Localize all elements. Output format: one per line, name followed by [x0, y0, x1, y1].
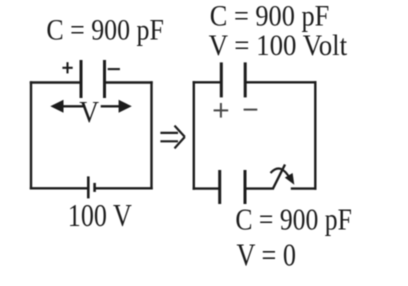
wire top-left segment (left circuit) — [30, 81, 81, 83]
wire left side (left circuit) — [30, 81, 32, 189]
minus sign at C2 — [244, 109, 258, 111]
wire bottom-left segment (right circuit) — [193, 187, 220, 189]
svg-text:V = 100 Volt: V = 100 Volt — [209, 29, 348, 62]
capacitor C2 left plate — [220, 62, 223, 97]
voltage arrow left (points left) — [50, 100, 84, 113]
battery 100 V long plate — [87, 176, 90, 198]
capacitor C2 right plate — [244, 62, 247, 97]
wire top-left segment (right circuit) — [193, 81, 222, 83]
wire top-right segment (right circuit) — [245, 81, 316, 83]
plus sign at C2 — [214, 103, 229, 118]
capacitor C1 left plate — [80, 60, 83, 98]
svg-text:C = 900 pF: C = 900 pF — [46, 13, 163, 46]
switch blade (open) — [273, 165, 286, 190]
svg-text:C = 900 pF: C = 900 pF — [210, 0, 329, 33]
implication arrow (double arrow between circuits) — [160, 126, 184, 149]
capacitor C3 left plate — [218, 170, 221, 204]
wire bottom-right segment (switch contact to corner) — [291, 187, 317, 189]
wire bottom-right segment (left circuit) — [95, 187, 153, 189]
wire bottom-left segment (left circuit) — [30, 187, 89, 189]
capacitor C1 right plate — [103, 60, 106, 98]
capacitor C3 right plate — [244, 170, 247, 204]
svg-text:V: V — [79, 94, 99, 129]
switch closing arrow (curved with arrowhead) — [271, 169, 295, 185]
voltage arrow right (points right) — [101, 100, 132, 113]
svg-text:C = 900 pF: C = 900 pF — [235, 201, 352, 236]
wire bottom-middle segment (to switch) — [245, 187, 273, 189]
plus sign at C1 — [62, 62, 72, 73]
battery 100 V short plate — [93, 183, 96, 192]
minus sign at C1 — [108, 68, 120, 70]
svg-text:V = 0: V = 0 — [237, 237, 297, 273]
wire top-right segment (left circuit) — [105, 81, 153, 83]
wire right side (right circuit) — [314, 81, 316, 190]
svg-text:100 V: 100 V — [68, 197, 132, 233]
wire right side (left circuit) — [150, 81, 152, 189]
wire left side (right circuit) — [193, 81, 195, 190]
